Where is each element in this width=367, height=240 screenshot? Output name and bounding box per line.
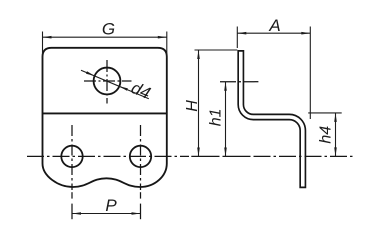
svg-text:H: H: [184, 100, 201, 112]
dimension h4 extension top: [308, 112, 342, 114]
dimension G extension left: [42, 32, 44, 59]
hole left: [61, 146, 82, 167]
centerline vertical hole right: [140, 125, 142, 190]
dimension h1 arrow top: [224, 82, 227, 91]
d4 arrow upper-left: [86, 71, 95, 76]
dimension h4 line: [335, 113, 337, 156]
d4 leader line: [81, 70, 149, 98]
svg-text:A: A: [268, 16, 280, 35]
dimension H line: [198, 50, 200, 157]
centerline top hole side view: [220, 81, 258, 83]
dimension h1 line: [225, 82, 227, 157]
bend line: [43, 112, 167, 114]
dimension A arrow right: [301, 32, 310, 35]
Z profile white infill: [241, 52, 303, 187]
hole right: [130, 146, 151, 167]
dimension A extension left: [236, 27, 238, 49]
dimension H arrow top: [197, 50, 200, 59]
dimension A extension right: [309, 27, 311, 120]
P extension line right (dashed): [140, 192, 142, 198]
centerline vertical top hole: [106, 60, 108, 104]
dimension h4 arrow bottom: [334, 147, 337, 156]
dimension H extension top: [195, 49, 238, 51]
centerline horizontal top hole: [84, 80, 132, 82]
dimension G arrow right: [158, 36, 167, 39]
dimension P arrow right: [132, 212, 141, 215]
dimension h4 arrow top: [334, 113, 337, 122]
dimension P line: [72, 213, 141, 215]
svg-text:h1: h1: [208, 109, 225, 127]
dimension h1 arrow bottom: [224, 148, 227, 157]
dimension G arrow left: [43, 36, 52, 39]
hole d4: [94, 68, 121, 95]
dimension A arrow left: [237, 32, 246, 35]
dimension G extension right: [166, 32, 168, 59]
svg-text:h4: h4: [318, 126, 335, 144]
dimension P arrow left: [72, 212, 81, 215]
P extension line left (dashed): [71, 192, 73, 198]
d4 arrow lower-right: [119, 86, 128, 91]
svg-text:P: P: [105, 196, 117, 215]
centerline bottom holes side view: [191, 155, 219, 157]
dimension A line: [237, 32, 310, 34]
centerline horizontal bottom holes: [27, 155, 189, 157]
centerline vertical hole left: [71, 125, 73, 190]
plate outline (front view): [43, 48, 167, 187]
svg-text:d4: d4: [128, 78, 153, 103]
Z profile (side view) outer black stroke: [241, 50, 303, 188]
dimension G line: [43, 36, 167, 38]
svg-text:G: G: [102, 20, 115, 39]
dimension H arrow bottom: [197, 148, 200, 157]
